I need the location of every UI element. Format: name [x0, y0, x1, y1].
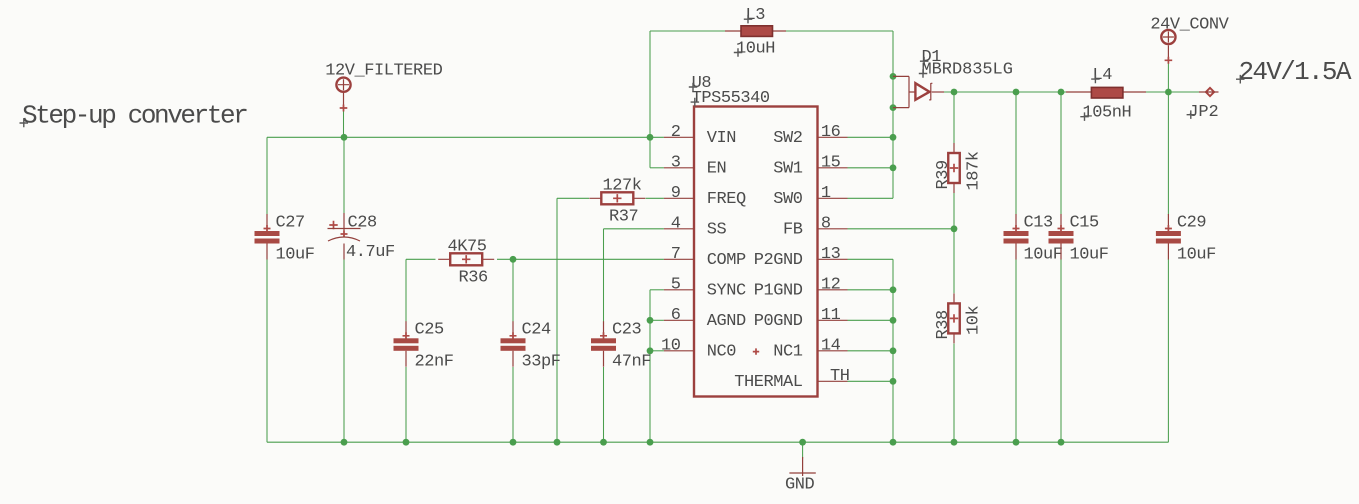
svg-text:3: 3	[671, 154, 681, 173]
wire R37 ground riser	[556, 198, 558, 442]
junction output R39	[951, 89, 958, 96]
svg-text:4: 4	[671, 215, 681, 234]
pin 13 P2GND	[754, 245, 848, 270]
pin 16 SW2	[773, 123, 847, 148]
junction rail C25	[403, 439, 410, 446]
capacitor C24	[501, 321, 526, 367]
wire PGND ground riser	[892, 259, 894, 442]
svg-text:NC0: NC0	[707, 343, 737, 362]
wire NC1 row	[848, 350, 894, 352]
wire C24 bottom branch	[512, 367, 514, 442]
wire SW riser	[892, 31, 894, 198]
junction SW1	[890, 164, 897, 171]
svg-text:33pF: 33pF	[522, 352, 561, 371]
wire EN link	[650, 167, 664, 169]
junction NC0	[647, 347, 654, 354]
wire P0GND row	[848, 319, 894, 321]
diode D1 MBRD835LG	[893, 48, 1013, 108]
wire 12V_FILTERED supply pin	[343, 106, 345, 137]
svg-text:TPS55340: TPS55340	[692, 89, 770, 108]
junction THERMAL	[890, 378, 897, 385]
wire C13 bottom branch	[1015, 259, 1017, 442]
svg-text:P1GND: P1GND	[754, 282, 803, 301]
pin 11 P0GND	[754, 306, 848, 331]
pin TH THERMAL	[734, 367, 849, 392]
wire COMP row right of R36	[497, 258, 664, 260]
svg-text:VIN: VIN	[707, 129, 736, 148]
svg-text:SW2: SW2	[773, 129, 802, 148]
junction FB	[951, 225, 958, 232]
resistor R36	[438, 253, 494, 265]
wire C29 top branch	[1167, 92, 1169, 215]
wire C15 top branch	[1060, 92, 1062, 215]
wire GND stem	[802, 442, 804, 458]
junction SW diode anode lower	[890, 104, 897, 111]
svg-text:6: 6	[671, 306, 681, 325]
svg-text:R37: R37	[609, 208, 638, 227]
junction rail R37	[554, 439, 561, 446]
svg-text:GND: GND	[785, 476, 815, 495]
svg-text:2: 2	[671, 123, 681, 142]
capacitor C28	[328, 213, 395, 262]
svg-text:5: 5	[671, 276, 681, 295]
svg-text:FB: FB	[783, 221, 803, 240]
pin 10 NC0	[661, 337, 736, 362]
wire R39 top	[953, 92, 955, 143]
wire SYNC row	[650, 289, 664, 291]
pin 4 SS	[664, 215, 727, 240]
wire FREQ to R37	[646, 197, 664, 199]
junction COMP / C24	[510, 256, 517, 263]
svg-text:COMP: COMP	[707, 251, 746, 270]
wire C13 top branch	[1015, 92, 1017, 215]
supply 12V_FILTERED	[336, 78, 350, 112]
svg-text:4.7uF: 4.7uF	[346, 243, 395, 262]
svg-text:10: 10	[661, 337, 681, 356]
svg-text:C29: C29	[1177, 213, 1207, 232]
wire SYNC ground riser	[649, 290, 651, 442]
wire diode cathode to output	[938, 91, 1066, 93]
svg-text:105nH: 105nH	[1083, 104, 1132, 123]
junction rail SYNC	[647, 439, 654, 446]
junction rail C15	[1058, 439, 1065, 446]
capacitor C15	[1049, 214, 1074, 260]
junction VIN node	[647, 134, 654, 141]
pin 1 SW0	[773, 184, 847, 209]
svg-text:10uF: 10uF	[276, 245, 315, 264]
svg-text:10k: 10k	[965, 305, 984, 335]
svg-text:11: 11	[821, 306, 841, 325]
wire AGND row	[650, 319, 664, 321]
svg-text:10uF: 10uF	[1177, 245, 1216, 264]
svg-text:SW0: SW0	[773, 190, 803, 209]
svg-text:24V/1.5A: 24V/1.5A	[1239, 57, 1352, 87]
pin 8 FB	[783, 215, 848, 240]
junction rail C28	[341, 439, 348, 446]
svg-text:MBRD835LG: MBRD835LG	[922, 60, 1013, 79]
svg-text:16: 16	[821, 123, 841, 142]
svg-text:EN: EN	[707, 160, 727, 179]
junction NC1	[890, 347, 897, 354]
svg-text:P0GND: P0GND	[754, 312, 803, 331]
pin 9 FREQ	[664, 184, 746, 209]
junction rail GND	[799, 439, 806, 446]
junction rail C23	[600, 439, 607, 446]
wire R37 to ground riser	[557, 197, 589, 199]
pin 7 COMP	[664, 245, 746, 270]
wire R36 left	[406, 258, 436, 260]
pin 12 P1GND	[754, 276, 848, 301]
svg-text:7: 7	[671, 245, 681, 264]
svg-text:SYNC: SYNC	[707, 282, 746, 301]
junction rail R38	[951, 439, 958, 446]
svg-text:R36: R36	[459, 269, 489, 288]
svg-text:SS: SS	[707, 221, 727, 240]
svg-text:P2GND: P2GND	[754, 251, 803, 270]
svg-text:10uF: 10uF	[1070, 245, 1109, 264]
wire C28 bottom branch	[343, 260, 345, 443]
wire R39 to FB to R38	[953, 193, 955, 293]
capacitor C25	[394, 321, 419, 367]
inductor L3	[725, 6, 786, 58]
label 24V/1.5A	[1236, 57, 1352, 87]
junction P1GND	[890, 286, 897, 293]
wire R36 to C25	[405, 259, 407, 321]
pin 14 NC1	[773, 337, 847, 362]
svg-text:NC1: NC1	[773, 343, 803, 362]
svg-text:TH: TH	[830, 367, 850, 386]
wire SW1	[848, 167, 894, 169]
pin 15 SW1	[773, 154, 847, 179]
svg-text:13: 13	[821, 245, 841, 264]
svg-text:47nF: 47nF	[612, 352, 651, 371]
svg-text:FREQ: FREQ	[707, 190, 746, 209]
svg-text:10uH: 10uH	[736, 39, 775, 58]
svg-text:R38: R38	[934, 310, 953, 340]
wire C25 bottom branch	[405, 367, 407, 442]
jumper JP2	[1187, 87, 1219, 122]
wire NC0 row	[650, 350, 664, 352]
inductor L4	[1066, 66, 1146, 123]
svg-text:AGND: AGND	[707, 312, 746, 331]
svg-text:C23: C23	[612, 320, 642, 339]
svg-text:SW1: SW1	[773, 160, 803, 179]
wire L3 right segment	[786, 30, 893, 32]
resistor R38	[948, 293, 960, 343]
wire R38 bottom	[953, 344, 955, 443]
svg-text:9: 9	[671, 184, 681, 203]
wire VIN riser to L3	[649, 31, 651, 168]
junction AGND	[647, 317, 654, 324]
svg-text:22nF: 22nF	[415, 352, 454, 371]
svg-text:127k: 127k	[603, 176, 642, 195]
wire SW0	[848, 197, 894, 199]
junction SW2	[890, 134, 897, 141]
svg-text:THERMAL: THERMAL	[734, 373, 803, 392]
junction P0GND	[890, 317, 897, 324]
svg-text:1: 1	[821, 184, 831, 203]
capacitor C29	[1156, 214, 1181, 260]
svg-text:C13: C13	[1024, 213, 1054, 232]
svg-text:4K75: 4K75	[448, 237, 487, 256]
wire SS to C23	[603, 229, 605, 322]
capacitor C13	[1004, 214, 1029, 260]
wire C27 bottom branch	[266, 259, 268, 442]
junction rail PGND	[890, 439, 897, 446]
svg-text:C24: C24	[522, 320, 552, 339]
wire SS row	[604, 228, 664, 230]
wire C23 bottom branch	[603, 367, 605, 442]
junction SW diode anode upper	[890, 73, 897, 80]
wire C27 top branch	[266, 137, 268, 214]
wire P2GND row	[848, 258, 894, 260]
resistor R37	[589, 192, 645, 204]
svg-text:15: 15	[821, 154, 841, 173]
svg-text:C27: C27	[276, 213, 305, 232]
junction rail C24	[510, 439, 517, 446]
svg-text:8: 8	[821, 215, 831, 234]
pin 5 SYNC	[664, 276, 746, 301]
svg-text:JP2: JP2	[1188, 103, 1218, 122]
wire P1GND row	[848, 289, 894, 291]
wire C29 bottom branch	[1167, 259, 1169, 442]
resistor R39	[948, 143, 960, 193]
svg-text:24V_CONV: 24V_CONV	[1150, 15, 1229, 34]
svg-text:Step-up converter: Step-up converter	[22, 101, 247, 131]
pin 6 AGND	[664, 306, 746, 331]
wire COMP to C24	[512, 259, 514, 321]
wire 24V_CONV supply pin	[1167, 58, 1169, 92]
junction 12V rail / C28	[341, 134, 348, 141]
IC U8 TPS55340	[689, 74, 818, 397]
wire FB row	[848, 228, 955, 230]
svg-text:C28: C28	[348, 213, 378, 232]
wire THERMAL row	[848, 380, 894, 382]
svg-text:187k: 187k	[965, 151, 984, 190]
wire 12V rail to VIN	[267, 136, 664, 138]
wire L4 to 24V node	[1146, 91, 1199, 93]
wire C28 top branch	[343, 137, 345, 213]
junction 24V node	[1165, 89, 1172, 96]
pin 3 EN	[664, 154, 726, 179]
wire ground rail	[267, 441, 1168, 443]
capacitor C23	[591, 321, 616, 367]
ground symbol GND	[785, 457, 816, 495]
svg-text:12V_FILTERED: 12V_FILTERED	[325, 61, 442, 80]
supply 24V_CONV	[1161, 30, 1175, 64]
wire C15 bottom branch	[1060, 259, 1062, 442]
junction output C15 / L4	[1058, 89, 1065, 96]
svg-text:10uF: 10uF	[1024, 245, 1063, 264]
wire L3 left segment	[650, 30, 725, 32]
svg-text:R39: R39	[934, 160, 953, 190]
svg-text:12: 12	[821, 276, 841, 295]
title Step-up converter	[20, 101, 248, 131]
svg-text:14: 14	[821, 337, 841, 356]
svg-text:C15: C15	[1070, 213, 1100, 232]
capacitor C27	[255, 214, 280, 260]
pin 2 VIN	[664, 123, 736, 148]
wire SW2	[848, 136, 894, 138]
svg-text:C25: C25	[415, 320, 445, 339]
junction rail C13	[1013, 439, 1020, 446]
junction output C13	[1013, 89, 1020, 96]
